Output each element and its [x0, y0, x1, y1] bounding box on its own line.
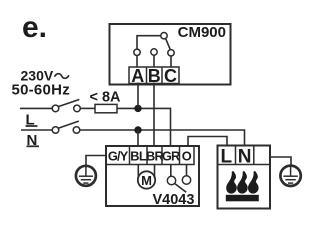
svg-text:BL: BL [130, 149, 147, 164]
svg-text:M: M [141, 173, 152, 188]
svg-text:GR: GR [162, 149, 180, 164]
terminal O [180, 146, 192, 165]
boiler terminal L [218, 146, 271, 168]
V4043 box [106, 146, 199, 206]
flame 1 [226, 171, 237, 194]
switch L [52, 100, 80, 112]
wire pivot to A contact [137, 36, 161, 49]
label N [27, 132, 40, 149]
earth symbol right [280, 166, 300, 186]
svg-text:BR: BR [146, 149, 163, 164]
earth right wire [270, 157, 291, 165]
wire L to fuse [80, 107, 95, 109]
wire L stub [20, 107, 52, 109]
svg-text:C: C [164, 66, 177, 86]
terminal BL [130, 146, 147, 165]
stat switch contact above A [134, 49, 140, 66]
switch N [52, 121, 80, 133]
stat switch contact above C [168, 50, 174, 67]
motor M [138, 165, 155, 189]
terminal A [129, 66, 179, 86]
junction dot N/BL [134, 126, 141, 133]
stat switch blade [166, 38, 171, 49]
svg-text:O: O [182, 149, 192, 164]
terminal BR [146, 146, 163, 165]
wire L line to GR corner [117, 108, 171, 146]
terminal B [147, 66, 161, 86]
wire N line to boiler N [80, 130, 245, 146]
svg-text:G/Y: G/Y [108, 149, 129, 164]
wire O to boiler L [188, 137, 227, 147]
wire BL up to N junction [137, 130, 139, 146]
fuse [95, 104, 117, 112]
terminal C [162, 66, 177, 86]
earth left wire [86, 156, 106, 166]
CM900 box [110, 24, 231, 85]
AC sine symbol [55, 74, 69, 79]
flame 2 [237, 171, 248, 194]
stat switch pivot circle [161, 33, 167, 39]
junction dot L/A [134, 105, 141, 112]
burner bar [226, 195, 259, 202]
boiler box [218, 146, 271, 209]
svg-text:CM900: CM900 [178, 24, 226, 41]
svg-text:< 8A: < 8A [90, 90, 122, 106]
terminal GR [162, 146, 180, 165]
wire B down to BR [153, 83, 155, 147]
boiler terminal N [236, 146, 252, 168]
valve aux switch [167, 165, 190, 193]
terminal G/Y [106, 146, 194, 165]
svg-text:N: N [238, 147, 252, 168]
svg-text:V4043: V4043 [153, 192, 195, 208]
boiler terminal earth (blank) [253, 146, 255, 165]
svg-text:50-60Hz: 50-60Hz [12, 81, 70, 98]
wire A down to L junction [137, 83, 139, 109]
wire N stub [21, 129, 52, 131]
flame 3 [248, 171, 259, 194]
stat switch contact above B [151, 49, 157, 67]
svg-text:e.: e. [22, 11, 47, 44]
earth symbol left [76, 166, 96, 186]
svg-text:L: L [220, 147, 232, 168]
label L [26, 111, 38, 128]
